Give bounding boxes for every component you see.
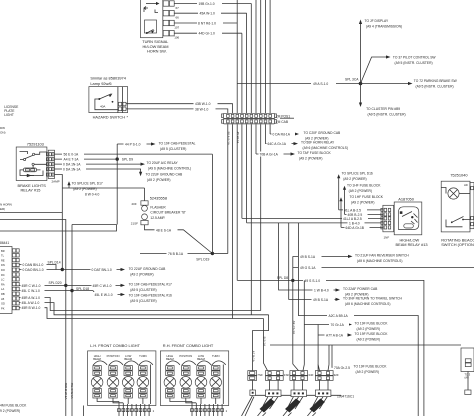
- svg-text:(A9 5 (INSTR. CLUSTER): (A9 5 (INSTR. CLUSTER): [395, 61, 433, 65]
- svg-text:LIGHT: LIGHT: [4, 113, 14, 117]
- turn signal / hi-lo beam / horn switch S1: [141, 0, 163, 38]
- wire 45A W-1.0: [174, 11, 246, 113]
- connector pins 67 66 107 106: [142, 1, 179, 54]
- wire 64D A Gr-1B w/ riser to 1HF fuse block: [339, 195, 383, 230]
- relay #15 pin connector: [18, 150, 60, 192]
- svg-text:Lamp 92w/6: Lamp 92w/6: [90, 81, 111, 86]
- wire bundle fan 3: [307, 397, 327, 416]
- wire 49 B S-1A to return to travel switch: [289, 223, 403, 306]
- svg-text:(A9 2 (POWER): (A9 2 (POWER): [357, 327, 380, 331]
- svg-text:SPL D9: SPL D9: [122, 158, 133, 162]
- wire bundle fan 2: [283, 397, 303, 416]
- wires from top edge into connector POS1: [237, 0, 270, 113]
- svg-text:RE: RE: [1, 258, 5, 262]
- svg-text:LB: LB: [1, 297, 4, 301]
- svg-text:N HORN: N HORN: [0, 203, 12, 207]
- svg-text:0 DA 1N-1A: 0 DA 1N-1A: [63, 168, 81, 172]
- svg-text:32F: 32F: [334, 373, 339, 377]
- svg-text:TO SPLICE SPL D16: TO SPLICE SPL D16: [342, 172, 373, 176]
- svg-text:A7T A B-1A: A7T A B-1A: [326, 334, 344, 338]
- connector 32F: [315, 345, 339, 397]
- wire 0 DAT BN-1.0 to ground cab: [62, 267, 166, 277]
- svg-text:45L C W-1A: 45L C W-1A: [70, 383, 74, 399]
- svg-text:45A W-1.0: 45A W-1.0: [200, 12, 215, 16]
- long wire y=345 to right box: [270, 344, 461, 346]
- wire from left edge y=231 S-bend to SPL D9 riser: [0, 225, 117, 232]
- wire 0 DA Rd-1A to ground cab: [270, 131, 341, 141]
- svg-text:BEAM: BEAM: [197, 357, 205, 361]
- svg-text:(A9 6 (MACHINE CONTROLS): (A9 6 (MACHINE CONTROLS): [303, 146, 348, 150]
- svg-text:40A: 40A: [100, 104, 105, 108]
- svg-text:SPL 3CA: SPL 3CA: [345, 78, 359, 82]
- rear harness connector 86441: [0, 241, 19, 314]
- svg-text:64D A Gr-1B: 64D A Gr-1B: [346, 226, 365, 230]
- svg-text:HORN SW.: HORN SW.: [147, 48, 167, 53]
- svg-text:2AMP: 2AMP: [52, 179, 60, 183]
- wire A4 E T-1A to splice SPL D9: [55, 157, 134, 162]
- svg-text:(A9 2 (POWER): (A9 2 (POWER): [73, 187, 96, 191]
- svg-text:8 W 0-4.0: 8 W 0-4.0: [85, 192, 99, 196]
- svg-text:7SF: 7SF: [257, 373, 263, 377]
- svg-text:45R D W-1A: 45R D W-1A: [64, 383, 68, 400]
- relay #13 connector A187050: [381, 197, 415, 240]
- svg-text:HD: HD: [464, 183, 468, 187]
- bottom joining wire under lower blocks: [256, 394, 342, 396]
- svg-text:48 E S-1A: 48 E S-1A: [156, 228, 172, 232]
- svg-text:ON): ON): [0, 131, 6, 135]
- svg-text:(A9 6 (MACHINE CONTROLS): (A9 6 (MACHINE CONTROLS): [345, 302, 390, 306]
- svg-text:SPL D19: SPL D19: [196, 257, 209, 261]
- wire 45R C W-1.0 / splice SPL D20: [20, 281, 172, 292]
- wire 8 W 0-4.0 / splice SPL D17 branch: [55, 175, 145, 197]
- wire 8 NT RD-1.0: [174, 0, 237, 26]
- svg-text:RB: RB: [1, 292, 5, 296]
- wire 45L A W-1.0 staircase to bus2: [20, 300, 269, 315]
- svg-text:TO 19F CAB-PEDESTAL #16: TO 19F CAB-PEDESTAL #16: [129, 293, 172, 297]
- svg-text:45 W-1A: 45 W-1A: [236, 132, 240, 144]
- svg-text:TURN: TURN: [212, 354, 220, 358]
- svg-text:CIRCUIT BREAKER "B": CIRCUIT BREAKER "B": [150, 211, 186, 215]
- svg-text:LA: LA: [1, 287, 4, 291]
- svg-text:75291103: 75291103: [27, 142, 44, 147]
- svg-text:(M POS1: (M POS1: [277, 114, 291, 118]
- svg-text:TO 22AF POWER CAB: TO 22AF POWER CAB: [343, 287, 378, 291]
- svg-text:TO 37 PILOT CONTROL SW: TO 37 PILOT CONTROL SW: [393, 56, 437, 60]
- svg-text:49 B S-1A: 49 B S-1A: [313, 298, 329, 302]
- svg-text:70 Gr-1A: 70 Gr-1A: [331, 323, 345, 327]
- svg-text:(A9 2 (POWER): (A9 2 (POWER): [351, 201, 374, 205]
- wire 0 DAN BN-1.0 to splice SPL D14: [20, 262, 57, 270]
- L.H. comb connector below box: [83, 402, 154, 416]
- wire 45R B W-1.0 staircase to bus3: [20, 305, 264, 318]
- wire 38 W-1.0 hazard to POS1: [126, 107, 228, 114]
- svg-text:(A9 2 (POWER): (A9 2 (POWER): [299, 157, 322, 161]
- svg-text:TO 19F FUSE BLOCK: TO 19F FUSE BLOCK: [354, 364, 388, 368]
- wire A7T A B-1A to 19F fuse block: [318, 325, 388, 371]
- svg-text:44D Gr-1.0: 44D Gr-1.0: [199, 32, 215, 36]
- splice SPL D19: [140, 154, 228, 261]
- svg-text:(A9 6 (MACHINE CONTROL): (A9 6 (MACHINE CONTROL): [148, 167, 191, 171]
- wire 0 DA 1N-1A to ground cab: [55, 167, 184, 183]
- svg-text:(A9: (A9: [465, 376, 470, 380]
- svg-text:RELAY #15: RELAY #15: [21, 188, 41, 193]
- svg-text:12.5 AMP.: 12.5 AMP.: [150, 216, 165, 220]
- svg-text:1NF: 1NF: [384, 235, 390, 239]
- svg-text:A9 J S-1A: A9 J S-1A: [292, 321, 296, 335]
- svg-text:49 A S-1.0: 49 A S-1.0: [313, 82, 328, 86]
- svg-text:107: 107: [174, 26, 179, 30]
- wire 49 G S-1A long to right edge: [293, 265, 474, 270]
- svg-text:RA: RA: [1, 282, 5, 286]
- svg-text:1 B-4.0: 1 B-4.0: [349, 221, 360, 225]
- svg-text:BEAM: BEAM: [124, 357, 132, 361]
- svg-text:70A Gr-2.5: 70A Gr-2.5: [334, 366, 350, 370]
- R.H. front combo light: [160, 343, 228, 406]
- svg-text:49 B S-1A: 49 B S-1A: [300, 255, 316, 259]
- svg-text:0 DAN BN-1.0: 0 DAN BN-1.0: [23, 263, 44, 267]
- svg-text:Similar as 85803974: Similar as 85803974: [90, 76, 126, 81]
- wire 0 DAO BN-1.0 / splice SPL D14: [20, 260, 65, 272]
- small box right edge with connector: [461, 348, 474, 395]
- svg-text:44 P S-1.0: 44 P S-1.0: [125, 143, 141, 147]
- svg-text:TO 22UF GROUND CAB: TO 22UF GROUND CAB: [129, 267, 167, 271]
- wire 56 E 0-1A relay to SPL D19 riser: [55, 152, 213, 157]
- wire 49 A S-1.0 to SPL 3CA: [237, 81, 360, 86]
- svg-text:(A9 5 (INSTR. CLUSTER): (A9 5 (INSTR. CLUSTER): [368, 113, 406, 117]
- svg-text:1SF: 1SF: [284, 373, 290, 377]
- wire 49 B S-1A to fan reverser switch: [293, 253, 410, 263]
- wire 40B B-2.5 w/ riser to 1HF fuse block: [343, 183, 383, 217]
- connector POS1 CAB: [222, 113, 295, 124]
- svg-text:20F: 20F: [132, 202, 137, 206]
- svg-text:8 NT Rd-1.0: 8 NT Rd-1.0: [198, 22, 216, 26]
- rotating beacon switch: [441, 173, 474, 247]
- svg-text:TO SPLICE SPL D17: TO SPLICE SPL D17: [72, 182, 103, 186]
- svg-text:SPL D20: SPL D20: [49, 281, 62, 285]
- svg-text:DW: DW: [0, 126, 5, 130]
- svg-text:B S-1A: B S-1A: [263, 337, 267, 347]
- svg-text:BR: BR: [1, 249, 5, 253]
- hazard switch S2: [89, 76, 129, 120]
- svg-text:(A9 2 (POWER): (A9 2 (POWER): [357, 338, 380, 342]
- svg-text:FLASHER: FLASHER: [150, 205, 166, 209]
- svg-text:(A9 6 (MACHINE CONTROLS): (A9 6 (MACHINE CONTROLS): [357, 259, 402, 263]
- svg-text:ER): ER): [0, 207, 5, 211]
- svg-text:A2C A B9-1A: A2C A B9-1A: [329, 314, 349, 318]
- wire 41LJ A B-2.5 from POS1: [242, 216, 383, 221]
- brake lights relay #15: [16, 142, 47, 181]
- svg-text:45R A W-1.0: 45R A W-1.0: [22, 296, 41, 300]
- svg-text:HAZARD SWITCH: HAZARD SWITCH: [93, 114, 126, 119]
- svg-text:45R C W-1.0: 45R C W-1.0: [22, 284, 41, 288]
- riser x=72 down to bottom: [71, 225, 73, 416]
- svg-text:49 S S-1.0: 49 S S-1.0: [305, 279, 321, 283]
- left edge cut text fragments: [0, 126, 12, 211]
- svg-text:38 W-1.0: 38 W-1.0: [195, 108, 208, 112]
- wire to 1SF from bus3: [264, 319, 268, 371]
- svg-text:45L A W-1.0: 45L A W-1.0: [22, 301, 40, 305]
- svg-text:TO 1HF FUSE BLOCK: TO 1HF FUSE BLOCK: [350, 195, 384, 199]
- svg-text:(M CAB: (M CAB: [277, 120, 289, 124]
- svg-text:43B W-1.0: 43B W-1.0: [195, 102, 211, 106]
- svg-text:21SF: 21SF: [131, 222, 138, 226]
- svg-text:19B Gr-1.0: 19B Gr-1.0: [199, 2, 215, 6]
- wire 41L A B-2.5 w/ riser to SPL D16: [337, 172, 383, 213]
- svg-text:41LJ A B-2.5: 41LJ A B-2.5: [343, 217, 362, 221]
- svg-text:PK: PK: [1, 306, 5, 310]
- L.H. front combo light: [88, 343, 156, 406]
- svg-text:A187050: A187050: [398, 197, 414, 202]
- wire from left edge y=212.5: [0, 212, 62, 214]
- svg-text:86441: 86441: [0, 241, 9, 245]
- wire 70 Gr-1A to 19F fuse block: [304, 280, 388, 364]
- wire to 7SF from bus2 S-bend: [253, 315, 269, 371]
- connector 7SF: [248, 371, 263, 396]
- relay #13 box: [394, 202, 427, 247]
- svg-text:TO 19F FUSE BLOCK: TO 19F FUSE BLOCK: [355, 332, 389, 336]
- svg-text:66: 66: [176, 16, 180, 20]
- R.H. comb connector below box: [191, 402, 228, 416]
- svg-text:A7 B-1A: A7 B-1A: [252, 351, 256, 362]
- wire down from SPL D17 branch to SPL D14: [61, 188, 63, 270]
- svg-text:GD: GD: [1, 302, 5, 306]
- wire 1 B-4.0 from POS1: [247, 220, 383, 225]
- svg-text:SPL D14: SPL D14: [48, 260, 61, 264]
- svg-text:TO 19F FUSE BLOCK: TO 19F FUSE BLOCK: [355, 322, 389, 326]
- svg-text:64C A Gr-1A: 64C A Gr-1A: [268, 142, 287, 146]
- svg-text:L.H. FRONT COMBO LIGHT: L.H. FRONT COMBO LIGHT: [90, 343, 140, 348]
- wire 49 S S-1.0 through SPL D8 turning down at x=423.9: [237, 278, 424, 416]
- svg-text:BEAM: BEAM: [166, 357, 174, 361]
- svg-text:(A9 5 (CLUSTER): (A9 5 (CLUSTER): [130, 288, 156, 292]
- svg-text:TO TAF FUSE BLOCK: TO TAF FUSE BLOCK: [298, 151, 332, 155]
- svg-text:TO 19F CAB-PEDESTAL #17: TO 19F CAB-PEDESTAL #17: [129, 282, 172, 286]
- svg-text:TO 3NF RETURN TO TRAVEL SWITCH: TO 3NF RETURN TO TRAVEL SWITCH: [343, 296, 403, 300]
- svg-text:TO 1HF FUSE BLOCK: TO 1HF FUSE BLOCK: [347, 183, 381, 187]
- svg-text:BEAM RELAY #13: BEAM RELAY #13: [396, 242, 428, 247]
- wire 19B Gr-1.0: [174, 1, 251, 113]
- svg-text:TO 21UF FAN REVERSER SWITCH: TO 21UF FAN REVERSER SWITCH: [355, 253, 409, 257]
- svg-text:(A9 2 (POWER): (A9 2 (POWER): [349, 189, 372, 193]
- svg-text:(A9 2 (POWER): (A9 2 (POWER): [356, 370, 379, 374]
- svg-text:A4 E T-1A: A4 E T-1A: [64, 158, 80, 162]
- wire 1 W B-4.0 to power cab: [279, 223, 379, 297]
- wire 64C A Gr-1A to horn relay: [265, 141, 348, 151]
- svg-text:(A9 4 (TRANSMISSION): (A9 4 (TRANSMISSION): [366, 25, 402, 29]
- svg-text:70B A Gr-1A: 70B A Gr-1A: [260, 153, 279, 157]
- wire from left edge y=219.5 into riser x=65.8: [0, 220, 66, 416]
- svg-text:67: 67: [176, 6, 180, 10]
- svg-text:(A9 2 (POWER): (A9 2 (POWER): [130, 272, 153, 276]
- wire 45L C W-1.0 / splice SPL D18: [20, 287, 172, 303]
- svg-text:(A9 2 (POWER): (A9 2 (POWER): [343, 177, 366, 181]
- svg-text:9 2 (POWER): 9 2 (POWER): [0, 409, 20, 413]
- flasher circuit breaker B: [131, 188, 187, 226]
- svg-text:(A9 5 (CLUSTER): (A9 5 (CLUSTER): [130, 299, 156, 303]
- svg-text:R.H. FRONT COMBO LIGHT: R.H. FRONT COMBO LIGHT: [163, 343, 214, 348]
- wire 44D Gr-1.0: [174, 31, 242, 113]
- wire A2C A B9-1A turning down at x=418.2: [298, 223, 418, 416]
- svg-text:SWITCH (OPTION: SWITCH (OPTION: [441, 242, 474, 247]
- connector 1SF: [266, 371, 290, 397]
- svg-text:RC: RC: [1, 273, 5, 277]
- svg-text:1 W B-4.0: 1 W B-4.0: [314, 289, 329, 293]
- bottom left cut text to fuse block: [0, 404, 27, 414]
- svg-text:TURN: TURN: [139, 354, 147, 358]
- svg-text:4M FUSE BLOCK: 4M FUSE BLOCK: [0, 404, 27, 408]
- svg-text:0 DAO BN-1.0: 0 DAO BN-1.0: [23, 268, 44, 272]
- svg-text:TO 19F CAB-PEDESTAL: TO 19F CAB-PEDESTAL: [159, 142, 196, 146]
- svg-text:TO C20F GROUND CAB: TO C20F GROUND CAB: [304, 131, 342, 135]
- svg-text:TO 20UF A/C RELAY: TO 20UF A/C RELAY: [147, 161, 179, 165]
- svg-text:POSITION: POSITION: [107, 354, 120, 358]
- splice SPL D9 riser and 44P wire: [117, 142, 195, 225]
- wire 70A Gr-2.5 to 19F fuse block: [332, 345, 387, 374]
- svg-text:DN: DN: [1, 263, 5, 267]
- wire bundle fan 1: [242, 396, 279, 416]
- svg-text:45L C W-1.0: 45L C W-1.0: [22, 289, 40, 293]
- svg-text:TO 72 PARKING BRAKE SW: TO 72 PARKING BRAKE SW: [414, 79, 458, 83]
- svg-text:50 A S-1A: 50 A S-1A: [227, 132, 231, 145]
- svg-text:52435558: 52435558: [150, 195, 167, 200]
- wire 48 E S-1A flasher to SPL D19: [145, 225, 213, 254]
- svg-text:BEAM: BEAM: [93, 357, 101, 361]
- svg-text:TO 22UF GROUND CAB: TO 22UF GROUND CAB: [146, 173, 184, 177]
- svg-text:45R B W-1.0: 45R B W-1.0: [22, 306, 41, 310]
- svg-text:0 DA 1N-1A: 0 DA 1N-1A: [63, 163, 81, 167]
- svg-text:76 B B-1A: 76 B B-1A: [168, 252, 184, 256]
- svg-text:LC: LC: [1, 278, 4, 282]
- svg-text:45L E W-1.0: 45L E W-1.0: [95, 293, 113, 297]
- wires down from POS1: [227, 124, 271, 318]
- connector 34F: [290, 364, 314, 397]
- svg-text:(A9 2 (POWER): (A9 2 (POWER): [147, 178, 170, 182]
- svg-text:TO CLUSTER PIN #B9: TO CLUSTER PIN #B9: [366, 107, 400, 111]
- svg-text:45R C W-1.0: 45R C W-1.0: [93, 284, 112, 288]
- svg-text:TO JF DISPLAY: TO JF DISPLAY: [365, 19, 389, 23]
- svg-text:41L A B-2.5: 41L A B-2.5: [344, 208, 361, 212]
- wire 0 DA 1N-1A to A/C relay: [55, 161, 192, 171]
- svg-text:POSITION: POSITION: [179, 354, 192, 358]
- wire 45R A W-1.0 staircase to bus1: [20, 295, 261, 311]
- license plate light label: [4, 105, 19, 117]
- wire 70B A Gr-1A to fuse block: [256, 151, 331, 161]
- svg-text:DO: DO: [1, 268, 5, 272]
- svg-text:0 DA Rd-1A: 0 DA Rd-1A: [273, 133, 291, 137]
- svg-text:TO 56F HORN RELAY: TO 56F HORN RELAY: [301, 141, 335, 145]
- svg-text:0 DAT BN-1.0: 0 DAT BN-1.0: [92, 268, 112, 272]
- svg-text:106: 106: [174, 36, 179, 40]
- svg-text:(A9 5 (CLUSTER): (A9 5 (CLUSTER): [160, 147, 186, 151]
- svg-text:56 E 0-1A: 56 E 0-1A: [64, 153, 79, 157]
- svg-text:34F: 34F: [308, 373, 313, 377]
- splice SPL 3CA: [345, 19, 458, 117]
- splice SPL D8: [277, 256, 295, 364]
- svg-text:75251040: 75251040: [450, 173, 468, 178]
- svg-text:(A9 5 (INSTR. CLUSTER): (A9 5 (INSTR. CLUSTER): [416, 85, 454, 89]
- svg-text:49 G S-1A: 49 G S-1A: [300, 266, 316, 270]
- wire 43B W-1.0 hazard to POS1: [126, 101, 232, 113]
